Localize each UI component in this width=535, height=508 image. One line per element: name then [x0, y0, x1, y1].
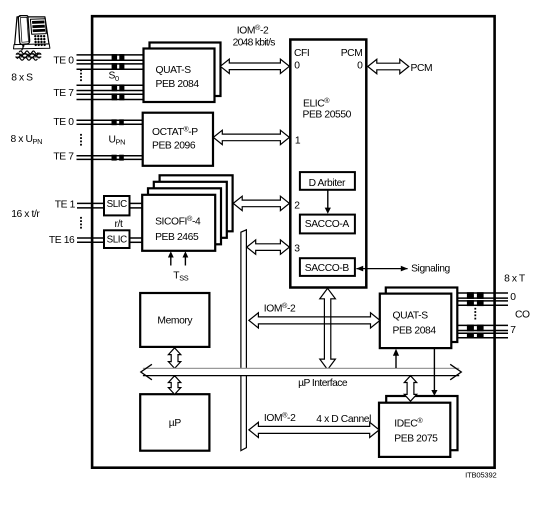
svg-text:0: 0 — [510, 292, 516, 303]
svg-text:IOM®-2: IOM®-2 — [264, 301, 296, 314]
svg-text:0: 0 — [294, 61, 300, 72]
svg-text:IOM®-2: IOM®-2 — [237, 23, 269, 36]
arrow QUAT-S to IDEC (down) — [433, 349, 435, 391]
svg-text:TE 1: TE 1 — [55, 200, 76, 211]
svg-text:0: 0 — [357, 60, 363, 71]
svg-text:OCTAT®-P: OCTAT®-P — [152, 125, 198, 138]
svg-text:2048 kbit/s: 2048 kbit/s — [233, 37, 276, 48]
SLIC block 2 — [104, 230, 130, 248]
UPN interface lines TE 0 (2-wire) — [77, 119, 143, 121]
ellipsis TE1-TE16 — [80, 217, 82, 219]
double arrow ELIC to uP interface bus — [320, 288, 336, 369]
block SICOFI-4 PEB 2465 (front) — [142, 195, 215, 251]
svg-text:PEB 20550: PEB 20550 — [303, 110, 352, 121]
svg-text:PEB 2075: PEB 2075 — [394, 433, 438, 444]
block OCTAT-P PEB 2096 — [143, 113, 213, 166]
T interface lines CO 0 (4-wire with transformers) — [457, 292, 508, 294]
svg-text:4 x D Cannel: 4 x D Cannel — [316, 414, 371, 425]
signaling double arrow from SACCO-B — [356, 268, 407, 270]
svg-text:16 x t/r: 16 x t/r — [11, 209, 40, 220]
svg-text:QUAT-S: QUAT-S — [156, 65, 192, 76]
TSS clock arrows into SICOFI — [170, 257, 172, 266]
svg-text:SLIC: SLIC — [107, 199, 128, 210]
T interface lines CO 7 (4-wire with transformers) — [457, 324, 508, 326]
svg-text:PEB 2084: PEB 2084 — [393, 326, 437, 337]
IOM-2 double arrow QUAT-S to ELIC CFI 0 — [220, 59, 289, 73]
svg-text:PCM: PCM — [411, 63, 433, 74]
svg-text:7: 7 — [510, 325, 516, 336]
svg-text:CFI: CFI — [294, 48, 309, 59]
block IDEC PEB 2075 (back copy) — [386, 396, 457, 450]
block QUAT-S PEB 2084 (bottom right, back copy) — [386, 288, 458, 343]
vertical IOM-2 bus — [241, 230, 247, 451]
wire SLIC2 to SICOFI — [130, 237, 143, 239]
block QUAT-S PEB 2084 (top, front) — [144, 49, 215, 103]
svg-text:D Arbiter: D Arbiter — [309, 178, 346, 189]
svg-text:PEB 2465: PEB 2465 — [155, 232, 199, 243]
double arrow OCTAT-P to ELIC CFI 1 — [213, 130, 289, 144]
UPN interface lines TE 7 (2-wire) — [77, 155, 143, 157]
block SACCO-A (inside ELIC) — [300, 215, 355, 234]
svg-text:µP Interface: µP Interface — [298, 378, 348, 389]
svg-text:SICOFI®-4: SICOFI®-4 — [155, 214, 201, 227]
IOM-2 double arrow to QUAT-S trunk — [249, 313, 380, 328]
svg-text:PEB 2096: PEB 2096 — [152, 141, 196, 152]
outer system border frame — [92, 16, 495, 468]
svg-text:1: 1 — [295, 136, 301, 147]
double arrow SICOFI to ELIC CFI 2 — [233, 196, 289, 210]
arrow uP interface to QUAT-S (up) — [395, 355, 397, 368]
telephone icon — [14, 17, 50, 49]
S0 interface lines TE 7 (4-wire with transformers) — [77, 84, 144, 86]
block D Arbiter (inside ELIC) — [300, 172, 355, 190]
S0 interface lines TE 0 (4-wire with transformers) — [77, 54, 144, 56]
svg-text:PEB 2084: PEB 2084 — [156, 79, 200, 90]
block SICOFI-4 PEB 2465 (stack back 1) — [148, 188, 221, 244]
ellipsis TE0-TE7 UPN — [80, 134, 82, 136]
svg-text:CO: CO — [515, 310, 530, 321]
svg-text:QUAT-S: QUAT-S — [393, 311, 429, 322]
svg-text:ITB05392: ITB05392 — [465, 470, 496, 479]
double arrow uP interface to uP — [168, 376, 180, 395]
block SICOFI-4 PEB 2465 (stack back 3) — [160, 175, 233, 231]
block QUAT-S PEB 2084 (bottom right, front) — [380, 294, 452, 349]
PCM double arrow at ELIC PCM port — [368, 59, 409, 73]
svg-text:TE 7: TE 7 — [53, 152, 74, 163]
block SACCO-B (inside ELIC) — [300, 258, 355, 276]
ellipsis TE0-TE7 S — [80, 69, 82, 71]
svg-text:Signaling: Signaling — [411, 263, 450, 274]
svg-text:3: 3 — [294, 244, 300, 255]
svg-text:r/t: r/t — [115, 219, 123, 230]
arrow D Arbiter to SACCO-A — [327, 190, 329, 209]
svg-text:8 x S: 8 x S — [11, 72, 33, 83]
svg-text:SACCO-A: SACCO-A — [305, 219, 350, 230]
double arrow uP interface to IDEC — [404, 376, 416, 402]
svg-text:IOM®-2: IOM®-2 — [264, 411, 296, 424]
SLIC block 1 — [104, 196, 130, 215]
svg-text:TE 16: TE 16 — [49, 235, 75, 246]
block IDEC PEB 2075 (front) — [379, 403, 450, 457]
svg-text:Memory: Memory — [157, 315, 193, 326]
block Memory — [140, 293, 209, 347]
double arrow Memory to uP interface — [168, 348, 180, 369]
svg-text:TE 0: TE 0 — [53, 56, 74, 67]
block SICOFI-4 PEB 2465 (stack back 2) — [154, 182, 227, 238]
svg-text:SLIC: SLIC — [107, 234, 128, 245]
svg-text:µP: µP — [169, 418, 182, 429]
ellipsis CO 0-7 — [474, 308, 476, 310]
svg-text:SACCO-B: SACCO-B — [305, 263, 350, 274]
svg-text:TE 0: TE 0 — [53, 117, 74, 128]
svg-text:PCM: PCM — [341, 48, 363, 59]
double arrow IOM bus to ELIC CFI 3 — [247, 240, 290, 254]
t/r analog lines TE 1 — [77, 202, 104, 204]
IOM-2 / 4xD channel double arrow to IDEC — [249, 422, 379, 437]
svg-text:8 x T: 8 x T — [504, 274, 526, 285]
svg-text:2: 2 — [294, 200, 300, 211]
t/r analog lines TE 16 — [77, 237, 104, 239]
svg-text:TE 7: TE 7 — [53, 88, 74, 99]
block QUAT-S PEB 2084 (top, back copy) — [150, 43, 221, 97]
block ELIC PEB 20550 — [290, 40, 366, 288]
wire SLIC1 to SICOFI — [130, 202, 143, 204]
block microprocessor uP — [140, 394, 209, 451]
uP interface bus — [143, 369, 459, 376]
